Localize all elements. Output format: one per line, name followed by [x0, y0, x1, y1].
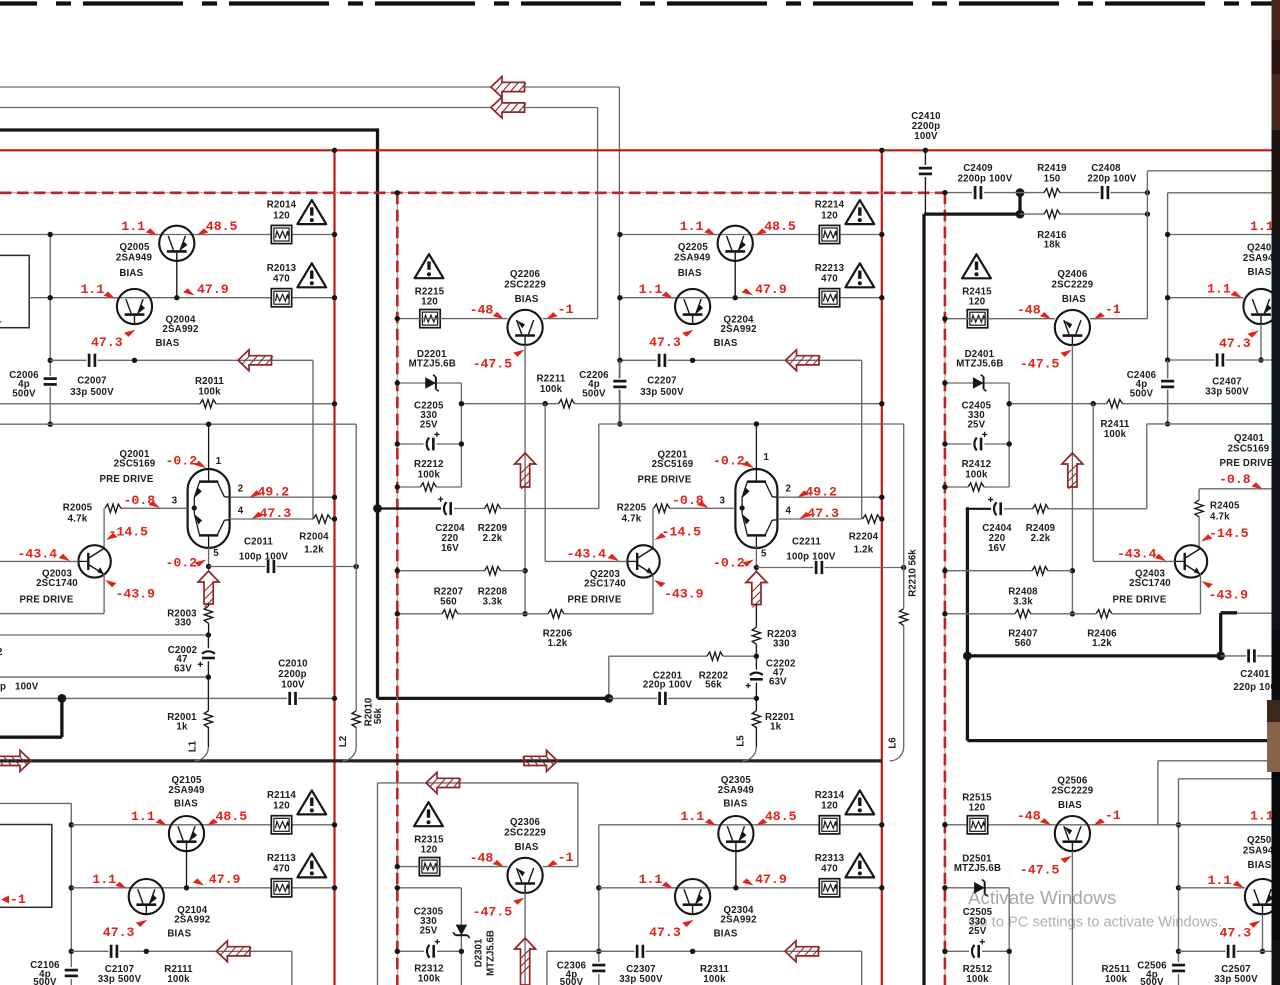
svg-text:BIAS: BIAS	[714, 338, 738, 349]
zener loop D2501 right vertical	[1008, 888, 1010, 985]
svg-text:R2113: R2113	[267, 853, 296, 864]
pin 5 wire block2	[755, 547, 757, 572]
resistor box R2315	[419, 858, 439, 876]
svg-text:C2401: C2401	[1240, 669, 1270, 680]
resistor box R2214	[819, 225, 839, 243]
svg-text:47.9: 47.9	[197, 282, 229, 297]
wire zener loop right	[1008, 383, 1010, 487]
svg-text:R2405: R2405	[1210, 501, 1240, 512]
svg-text:BIAS: BIAS	[167, 928, 191, 939]
warning triangle R2214	[845, 200, 874, 224]
svg-text:PRE DRIVE: PRE DRIVE	[99, 474, 153, 485]
svg-text:1.1: 1.1	[92, 872, 116, 887]
bias feedback wire top A	[0, 86, 491, 88]
svg-text:R2313: R2313	[815, 853, 845, 864]
svg-text:18k: 18k	[1044, 240, 1061, 251]
thick bus corner to C2201	[378, 697, 609, 700]
svg-text:L5: L5	[736, 735, 747, 747]
svg-text:BIAS: BIAS	[515, 842, 539, 853]
svg-text:BIAS: BIAS	[1248, 860, 1272, 871]
vertical feedback x1158 block6	[1157, 761, 1159, 825]
svg-text:MTZJ5.6B: MTZJ5.6B	[486, 930, 497, 976]
svg-text:1.1: 1.1	[680, 219, 704, 234]
svg-text:R2214: R2214	[815, 200, 845, 211]
thick stub to lower-left	[60, 698, 63, 737]
svg-text:R2212: R2212	[414, 459, 444, 470]
svg-text:47.9: 47.9	[755, 872, 787, 887]
svg-text:120: 120	[273, 801, 290, 812]
resistor box R2014	[271, 225, 291, 243]
wire W2 block4	[71, 887, 334, 889]
capacitor C2507	[1226, 944, 1237, 959]
svg-text:47.9: 47.9	[755, 282, 787, 297]
svg-text:25V: 25V	[420, 420, 438, 431]
svg-text:2SA949: 2SA949	[674, 253, 711, 264]
junction dashed border	[395, 190, 400, 195]
wire Q2306 right block5	[543, 866, 578, 868]
vertical W3 left corner block5	[546, 951, 548, 985]
svg-text:-48: -48	[470, 851, 494, 866]
vertical W5 to C2404 net block3	[1146, 424, 1148, 509]
L2 curve to bus	[342, 747, 356, 761]
vertical L2 net x356	[355, 424, 357, 711]
svg-text:-1: -1	[558, 850, 574, 865]
svg-text:R2210 56k: R2210 56k	[908, 549, 919, 597]
svg-text:470: 470	[821, 274, 838, 285]
thick bus top-left	[0, 128, 378, 131]
svg-text:2.2k: 2.2k	[1031, 533, 1051, 544]
emitter wire Q2203	[652, 574, 654, 613]
svg-text:120: 120	[969, 803, 986, 814]
svg-text:1.1: 1.1	[1207, 282, 1231, 297]
arrow bus left	[0, 750, 31, 771]
svg-text:560: 560	[440, 597, 457, 608]
svg-text:-48: -48	[1017, 809, 1041, 824]
svg-text:120: 120	[969, 297, 986, 308]
svg-text:25V: 25V	[967, 420, 985, 431]
arrow up at Q2406 emitter	[1062, 453, 1083, 487]
wire zener loop top	[397, 382, 461, 384]
warning triangle R2315	[414, 802, 443, 826]
arrow bus middle	[524, 750, 558, 771]
svg-text:PRE DRIVE: PRE DRIVE	[1112, 595, 1166, 606]
wire W1 block6	[945, 824, 1272, 826]
svg-text:470: 470	[273, 274, 290, 285]
wire W1 block1	[0, 234, 335, 236]
svg-text:1.2k: 1.2k	[304, 545, 324, 556]
svg-text:MTZJ5.6B: MTZJ5.6B	[954, 863, 1001, 874]
transistor Q2005	[159, 226, 194, 261]
resistor box R2415	[967, 310, 987, 328]
svg-text:500V: 500V	[582, 389, 606, 400]
wire W3 corner down block5	[861, 951, 863, 985]
vertical W5 to C2204 net	[598, 424, 600, 509]
svg-text:Activate Windows: Activate Windows	[968, 887, 1116, 908]
resistor R2407	[1015, 612, 1031, 616]
svg-text:2: 2	[238, 484, 244, 495]
wire R2415 to dashed border	[945, 318, 1055, 320]
wire zener loop right	[460, 383, 462, 487]
svg-text:-47.5: -47.5	[473, 356, 513, 371]
svg-text:1.1: 1.1	[131, 809, 155, 824]
svg-text:2200p: 2200p	[278, 669, 306, 680]
svg-text:R2114: R2114	[267, 790, 296, 801]
svg-text:1k: 1k	[770, 722, 782, 733]
svg-text:L1: L1	[188, 740, 199, 752]
svg-text:1.2k: 1.2k	[1092, 638, 1112, 649]
svg-text:33p 500V: 33p 500V	[1214, 974, 1258, 985]
capacitor C2408	[1100, 185, 1111, 200]
wire Q2406 right to feedback	[1090, 318, 1147, 320]
svg-text:100k: 100k	[966, 974, 989, 985]
resistor box R2113	[271, 879, 291, 897]
transistor Q2206	[507, 310, 542, 345]
capacitor C2306	[591, 963, 606, 974]
svg-text:BIAS: BIAS	[119, 268, 143, 279]
resistor R2408	[1032, 569, 1048, 573]
wire vertical x597 to Q2206	[597, 108, 599, 319]
svg-text:120: 120	[821, 210, 838, 221]
svg-text:R2013: R2013	[267, 263, 297, 274]
wire W3 block3	[1168, 359, 1272, 361]
svg-text:4.7k: 4.7k	[1210, 512, 1230, 523]
resistor R2001	[207, 677, 209, 712]
svg-text:C2010: C2010	[278, 659, 308, 670]
zener diode D2201	[425, 377, 436, 389]
resistor R2206	[548, 612, 564, 616]
svg-text:-43.4: -43.4	[18, 547, 58, 562]
svg-text:-14.5: -14.5	[1209, 526, 1249, 541]
wire W2 block5	[599, 887, 882, 889]
wire W3 corner down block4	[291, 951, 293, 985]
svg-text:47.3: 47.3	[1219, 336, 1251, 351]
arrow on W3 block5	[785, 941, 819, 962]
transistor Q2205	[718, 226, 753, 261]
capacitor C2202	[755, 656, 757, 698]
emitter wire Q2403	[1200, 574, 1202, 613]
red supply rail vertical right	[881, 150, 883, 985]
resistor box R2314	[819, 816, 839, 834]
zener loop D2501 top wire	[945, 887, 1009, 889]
svg-text:1: 1	[0, 312, 2, 327]
svg-text:500V: 500V	[1130, 389, 1154, 400]
wire C2401 right	[1221, 655, 1272, 657]
arrow to sheet left top B	[491, 97, 525, 118]
svg-text:5: 5	[761, 549, 767, 560]
svg-text:C2007: C2007	[77, 376, 107, 387]
svg-text:100k: 100k	[418, 470, 441, 481]
svg-text:1: 1	[216, 456, 222, 467]
arrow on feedback block5	[426, 772, 460, 793]
svg-text:120: 120	[421, 845, 438, 856]
transistor Q2306	[507, 858, 542, 893]
wire W3 block6	[1179, 950, 1272, 952]
thick wire block3 bottom	[967, 739, 1271, 742]
warning triangle R2314	[845, 790, 874, 814]
L5 curve to bus	[742, 747, 756, 761]
svg-text:-14.5: -14.5	[662, 525, 702, 540]
svg-text:R2419: R2419	[1037, 163, 1067, 174]
warning triangle R2415	[962, 254, 991, 278]
wire W2 block6	[1179, 887, 1246, 889]
svg-text:R2314: R2314	[815, 790, 845, 801]
wire R2205 to Q2203 collector	[652, 508, 654, 548]
vertical feedback right x578 block5	[577, 783, 579, 867]
wire C2002 bottom	[0, 676, 208, 678]
pin 4 wire block2	[777, 518, 861, 520]
svg-text:-1: -1	[1105, 302, 1121, 317]
svg-text:-0.2: -0.2	[713, 454, 745, 469]
arrow up at Q2001 emitter	[198, 571, 219, 604]
svg-text:4.7k: 4.7k	[68, 514, 88, 525]
svg-text:2SA949: 2SA949	[116, 253, 153, 264]
svg-text:Q2005: Q2005	[119, 242, 149, 253]
svg-text:500V: 500V	[12, 389, 36, 400]
resistor R2409	[1033, 507, 1049, 511]
resistor R2412	[968, 485, 984, 489]
resistor box R2114	[271, 816, 291, 834]
capacitor C2405	[971, 437, 984, 452]
capacitor C2106	[64, 968, 79, 979]
svg-text:48.5: 48.5	[765, 809, 797, 824]
resistor R2411	[1107, 402, 1123, 406]
resistor R2011	[200, 402, 216, 406]
svg-text:47.3: 47.3	[103, 925, 135, 940]
pin 4 wire block1	[230, 518, 313, 520]
bias feedback wire top B	[0, 107, 491, 109]
svg-text:-0.8: -0.8	[672, 493, 704, 508]
capacitor C2010	[287, 691, 298, 706]
svg-text:1.1: 1.1	[1208, 873, 1232, 888]
transistor Q2305 emitter wire	[735, 851, 737, 888]
thick power jog x1020	[924, 212, 1020, 215]
vertical feed x71 block4	[70, 803, 72, 967]
page top dashed border	[0, 1, 1272, 5]
svg-text:R2011: R2011	[195, 376, 224, 387]
svg-text:3: 3	[720, 496, 726, 507]
svg-text:220p 100V: 220p 100V	[643, 680, 693, 691]
arrow to sheet left top A	[491, 77, 525, 98]
svg-text:500V: 500V	[33, 977, 57, 985]
emitter wire Q2003	[103, 574, 105, 613]
transistor Q2404	[1243, 289, 1278, 324]
svg-text:330: 330	[773, 639, 790, 650]
resistor R2205	[654, 506, 670, 510]
svg-text:C2211: C2211	[792, 537, 821, 548]
svg-text:100k: 100k	[703, 974, 726, 985]
svg-text:100k: 100k	[1104, 429, 1127, 440]
wire W1 block5	[599, 824, 882, 826]
svg-text:-43.4: -43.4	[1117, 547, 1157, 562]
warning triangle R2114	[297, 790, 326, 814]
resistor R2419	[1044, 191, 1060, 195]
transistor Q2104	[129, 879, 164, 914]
svg-text:1: 1	[764, 452, 770, 463]
connector box left edge	[0, 255, 29, 327]
svg-text:-0.2: -0.2	[713, 556, 745, 571]
wire W2 block2	[620, 297, 882, 299]
svg-text:4: 4	[238, 506, 244, 517]
capacitor C2410	[924, 150, 926, 165]
wire C2204 R2209 net	[378, 507, 442, 509]
svg-text:2SC2229: 2SC2229	[504, 827, 546, 838]
capacitor C2211	[814, 560, 825, 575]
wire corner x1147 top	[1147, 170, 1271, 172]
capacitor C2007	[87, 353, 98, 368]
wire top feed block4	[0, 802, 71, 804]
resistor box R2215	[420, 310, 440, 328]
svg-text:47.3: 47.3	[1220, 926, 1252, 941]
capacitor C2307	[635, 944, 646, 959]
vertical feedback left x377 block5	[377, 783, 379, 985]
junction red rail	[332, 148, 337, 153]
svg-text:C2409: C2409	[963, 163, 993, 174]
node x1147	[1145, 190, 1150, 195]
svg-text:2SC5169: 2SC5169	[652, 459, 694, 470]
svg-text:R2005: R2005	[63, 503, 93, 514]
red dashed border horizontal	[0, 192, 945, 194]
svg-text:2SA949: 2SA949	[718, 785, 755, 796]
vertical feed x50 block1	[49, 235, 51, 377]
svg-text:MTZJ5.6B: MTZJ5.6B	[956, 359, 1003, 370]
capacitor C2404	[991, 501, 1004, 516]
wire -0.8 net block3	[1199, 488, 1271, 490]
wire C2404 R2409 net block3	[967, 508, 991, 510]
thick wire block3 vertical x967	[966, 507, 969, 740]
svg-text:1.1: 1.1	[1250, 219, 1274, 234]
red supply rail horizontal	[0, 149, 1272, 151]
svg-text:100k: 100k	[167, 974, 190, 985]
dual transistor Q2001	[208, 424, 210, 471]
vertical L6 net x904	[903, 568, 905, 609]
svg-text:120: 120	[273, 210, 290, 221]
svg-text:47.3: 47.3	[260, 506, 292, 521]
wire zener loop mid	[945, 443, 1009, 445]
wire R2215 to dashed border	[397, 318, 507, 320]
svg-text:470: 470	[273, 864, 290, 875]
thick power vertical x924	[922, 214, 925, 985]
warning triangle R2014	[297, 200, 326, 224]
svg-text:BIAS: BIAS	[1058, 800, 1082, 811]
wire W4 block2 R2211 net	[461, 403, 881, 405]
resistor box R2013	[271, 289, 291, 307]
svg-text:-0.8: -0.8	[124, 493, 156, 508]
svg-text:2SC1740: 2SC1740	[1129, 578, 1171, 589]
svg-text:3.3k: 3.3k	[483, 597, 503, 608]
red supply rail vertical left	[333, 150, 335, 985]
resistor R2202	[707, 654, 723, 658]
svg-text:BIAS: BIAS	[174, 799, 198, 810]
wire R2408 net block3	[945, 570, 1073, 572]
svg-text:-43.9: -43.9	[1209, 588, 1249, 603]
svg-text:2SC1740: 2SC1740	[584, 579, 626, 590]
svg-text:560: 560	[1015, 638, 1032, 649]
svg-text:R2014: R2014	[267, 200, 297, 211]
wire W4 block3 R2411 net	[1009, 403, 1271, 405]
zener diode D2301	[456, 925, 468, 936]
wire W2 block1	[29, 297, 334, 299]
svg-text:1k: 1k	[176, 722, 188, 733]
capacitor C2401	[1246, 648, 1257, 663]
svg-text:D2301: D2301	[474, 938, 485, 967]
wire W4 block1 R2011 net	[0, 403, 335, 405]
resistor R2207	[442, 612, 458, 616]
svg-text:33p 500V: 33p 500V	[619, 974, 663, 985]
svg-text:330: 330	[175, 618, 192, 629]
svg-text:p: p	[0, 682, 6, 693]
svg-text:L2: L2	[338, 736, 349, 747]
svg-text:48.5: 48.5	[206, 219, 238, 234]
transistor Q2105	[169, 816, 204, 851]
wire W1 block4	[71, 824, 334, 826]
svg-text:Q2205: Q2205	[678, 242, 708, 253]
svg-text:150: 150	[1044, 174, 1061, 185]
capacitor C2409	[973, 185, 984, 200]
pin 2 wire block1	[230, 496, 335, 498]
arrow on W3 block4	[216, 941, 250, 962]
svg-text:2SC5169: 2SC5169	[114, 459, 156, 470]
svg-text:1.1: 1.1	[1250, 809, 1274, 824]
warning triangle R2313	[845, 853, 874, 877]
svg-text:16V: 16V	[441, 543, 459, 554]
svg-text:PRE DRIVE: PRE DRIVE	[637, 475, 691, 486]
junction W1 at red rail	[332, 232, 337, 237]
bias feedback wire block6	[1158, 760, 1272, 762]
svg-text:-48: -48	[1017, 303, 1041, 318]
svg-text:R2004: R2004	[299, 532, 329, 543]
svg-text:Q2401: Q2401	[1234, 433, 1264, 444]
transistor Q2205 emitter wire	[734, 261, 736, 298]
zener loop D2301 top wire	[397, 887, 461, 889]
Q2306 emitter vertical	[524, 893, 526, 985]
svg-text:2SA992: 2SA992	[162, 324, 198, 335]
capacitor C2006	[43, 376, 58, 387]
svg-text:100k: 100k	[540, 384, 563, 395]
Q2206 emitter vertical	[524, 345, 526, 614]
pin 3 wire block2	[670, 507, 736, 509]
transistor Q2204	[675, 289, 710, 324]
wire corner x1168 top	[1168, 192, 1272, 194]
svg-text:2200p 100V: 2200p 100V	[958, 174, 1013, 185]
resistor box R2313	[819, 879, 839, 897]
resistor R2416	[1044, 212, 1060, 216]
svg-text:16V: 16V	[988, 543, 1006, 554]
svg-text:49.2: 49.2	[258, 485, 290, 500]
capacitor C2207	[657, 353, 668, 368]
resistor R2004	[313, 517, 331, 521]
arrow up at Q2201 emitter	[746, 572, 767, 605]
svg-text:-43.4: -43.4	[567, 547, 607, 562]
svg-text:33p 500V: 33p 500V	[98, 974, 142, 985]
svg-text:MTZJ5.6B: MTZJ5.6B	[409, 359, 456, 370]
wire W5 block1	[0, 423, 356, 425]
svg-text:Go to PC settings to activate: Go to PC settings to activate Windows.	[968, 915, 1222, 931]
svg-text:33p 500V: 33p 500V	[70, 387, 114, 398]
dual transistor Q2201	[755, 424, 757, 471]
svg-text:48.5: 48.5	[216, 809, 248, 824]
resistor R2212	[420, 485, 436, 489]
transistor Q2105 emitter wire	[186, 851, 188, 888]
svg-text:100V: 100V	[281, 680, 305, 691]
resistor R2210	[902, 609, 906, 626]
svg-text:33p 500V: 33p 500V	[640, 387, 684, 398]
wire zener loop bottom	[945, 486, 1009, 488]
resistor box R2515	[967, 816, 987, 834]
warning triangle R2013	[297, 263, 326, 287]
svg-text:100V: 100V	[914, 131, 938, 142]
resistor R2201	[755, 698, 757, 712]
svg-text:2SC5169: 2SC5169	[1228, 444, 1270, 455]
